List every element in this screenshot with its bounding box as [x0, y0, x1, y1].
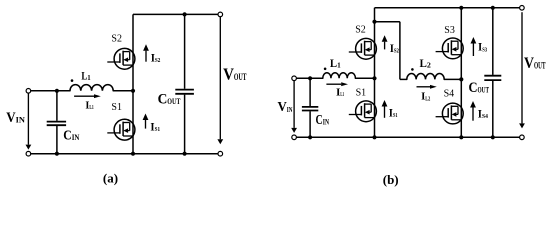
node CIN bottom junction (a): [55, 152, 59, 156]
svg-text:OUT: OUT: [167, 96, 180, 106]
svg-text:OUT: OUT: [534, 61, 546, 71]
wire L1 to switch leg (a): [113, 90, 133, 92]
node S1 source junction (a): [131, 152, 135, 156]
label IL1 (b): [336, 88, 344, 99]
node COUT bottom junction (a): [183, 152, 187, 156]
label COUT (a): [158, 92, 181, 108]
wire bottom rail (b): [296, 136, 519, 138]
inductor L2 (b): [407, 73, 444, 79]
polarity dot L2 (b): [411, 68, 414, 71]
svg-text:S1: S1: [393, 112, 398, 119]
svg-text:S3: S3: [444, 25, 455, 36]
svg-text:(a): (a): [103, 171, 118, 186]
current arrow IS1 (a): [143, 114, 149, 129]
voltage arrow VIN (b): [291, 81, 297, 133]
wire L1 to leg1 (b): [355, 77, 374, 79]
svg-text:OUT: OUT: [478, 85, 490, 95]
capacitor COUT (b): [484, 8, 501, 138]
svg-text:(b): (b): [383, 172, 399, 187]
label S1 (b): [356, 87, 367, 98]
input terminal top (b): [292, 76, 297, 81]
voltage arrow VOUT (b): [519, 12, 525, 128]
current arrow IL2 (b): [417, 85, 437, 89]
svg-text:IN: IN: [16, 115, 25, 124]
label VOUT (a): [223, 65, 246, 84]
label IS1 (b): [389, 105, 398, 119]
transistor S1 (a): [107, 119, 135, 140]
node CIN top junction (a): [55, 89, 59, 93]
input terminal bottom (b): [292, 135, 297, 140]
svg-text:V: V: [223, 65, 234, 84]
label L1 (b): [330, 56, 341, 70]
svg-text:IN: IN: [72, 133, 80, 142]
label S2 (a): [111, 34, 122, 45]
wire input top rail left segment (b): [296, 77, 322, 79]
label IS4 (b): [478, 107, 489, 121]
output terminal top (b): [520, 6, 525, 11]
output terminal bottom (b): [520, 135, 525, 140]
svg-text:C: C: [316, 112, 323, 127]
label VIN (a): [6, 110, 25, 126]
input terminal bottom (a): [26, 151, 31, 156]
wire L2 left stub (b): [400, 78, 407, 80]
label CIN (b): [316, 112, 330, 127]
label S4 (b): [444, 88, 455, 99]
svg-text:OUT: OUT: [234, 72, 247, 82]
svg-text:1: 1: [337, 62, 341, 70]
capacitor COUT (a): [175, 14, 194, 153]
node leg2 top junction (b): [459, 6, 463, 10]
wire bottom rail (a): [31, 153, 218, 155]
svg-text:L1: L1: [340, 91, 344, 98]
output terminal top (a): [218, 12, 223, 17]
label IS1 (a): [150, 119, 160, 133]
svg-text:C: C: [158, 92, 168, 108]
label COUT (b): [469, 80, 490, 96]
wire middle link vertical (b): [399, 22, 401, 80]
wire leg2 vertical (b): [460, 8, 462, 138]
wire top rail (b): [375, 7, 520, 9]
node COUT top junction (a): [183, 12, 187, 16]
circuit (a) two-switch boost cell: [6, 12, 246, 186]
svg-text:V: V: [524, 55, 534, 72]
polarity dot L1 (a): [71, 79, 74, 82]
label CIN (a): [63, 127, 79, 142]
inductor L1 (a): [70, 85, 113, 91]
svg-text:S2: S2: [394, 48, 399, 55]
label S1 (a): [111, 102, 122, 113]
label IS2 (a): [151, 51, 161, 65]
node CIN top junction (b): [308, 76, 312, 80]
circuit (b) stacked two-phase boost: [278, 6, 546, 187]
current arrow IS3 (b): [471, 37, 477, 56]
current arrow IL1 (a): [74, 94, 101, 98]
label IS2 (b): [390, 41, 399, 55]
caption (a): [103, 171, 118, 186]
node leg1 bottom junction (b): [372, 135, 376, 139]
svg-text:C: C: [469, 80, 478, 96]
capacitor CIN (a): [47, 91, 66, 154]
wire middle link horizontal (b): [375, 21, 400, 23]
current arrow IS1 (b): [382, 100, 388, 118]
svg-text:S2: S2: [355, 24, 366, 35]
transistor S3 (b): [436, 38, 464, 59]
current arrow IL1 (b): [326, 82, 348, 86]
label S2 (b): [355, 24, 366, 35]
label IS3 (b): [478, 40, 487, 54]
svg-text:L1: L1: [89, 104, 93, 111]
transistor S1 (b): [349, 101, 377, 122]
svg-text:2: 2: [427, 62, 432, 70]
label IL2 (b): [421, 92, 430, 103]
caption (b): [383, 172, 399, 187]
svg-text:IN: IN: [287, 105, 293, 114]
svg-text:C: C: [63, 127, 71, 142]
svg-text:S1: S1: [155, 126, 160, 133]
svg-text:V: V: [278, 100, 287, 115]
wire leg1 vertical (b): [374, 8, 376, 138]
wire L2 to leg2 (b): [444, 78, 461, 80]
node leg1 mid junction (b): [372, 76, 376, 80]
node leg1 top tap junction (b): [372, 20, 376, 24]
svg-text:IN: IN: [323, 117, 329, 126]
svg-text:S1: S1: [111, 102, 122, 113]
wire switch leg vertical (a): [132, 14, 134, 153]
node leg2 mid junction (b): [459, 77, 463, 81]
wire output top rail (a): [133, 13, 218, 15]
svg-text:L2: L2: [425, 95, 430, 102]
node COUT bottom junction (b): [491, 135, 495, 139]
voltage arrow VIN (a): [26, 93, 32, 149]
label IL1 (a): [85, 100, 93, 111]
svg-text:S2: S2: [155, 57, 160, 64]
wire input top rail left segment (a): [31, 90, 70, 92]
node leg2 bottom junction (b): [459, 135, 463, 139]
transistor S2 (a): [107, 48, 135, 69]
svg-text:S3: S3: [482, 46, 487, 53]
label L2 (b): [420, 56, 432, 70]
svg-text:S2: S2: [111, 34, 122, 45]
output terminal bottom (a): [218, 151, 223, 156]
label VIN (b): [278, 100, 293, 115]
transistor S2 (b): [349, 38, 377, 59]
label VOUT (b): [524, 55, 546, 72]
current arrow IS2 (a): [143, 44, 149, 62]
svg-text:L: L: [420, 56, 428, 70]
node CIN bottom junction (b): [308, 135, 312, 139]
svg-text:S4: S4: [444, 88, 455, 99]
current arrow IS2 (b): [382, 35, 388, 49]
node COUT top junction (b): [491, 6, 495, 10]
svg-text:S4: S4: [482, 113, 489, 120]
label S3 (b): [444, 25, 455, 36]
input terminal top (a): [26, 89, 31, 94]
label L1 (a): [81, 69, 91, 83]
capacitor CIN (b): [302, 78, 318, 137]
svg-text:S1: S1: [356, 87, 367, 98]
polarity dot L1 (b): [324, 68, 327, 71]
current arrow IS4 (b): [470, 101, 476, 121]
transistor S4 (b): [436, 103, 464, 124]
inductor L1 (b): [323, 73, 356, 79]
node A junction dot (a): [131, 89, 135, 93]
svg-text:V: V: [6, 110, 16, 126]
svg-text:1: 1: [87, 74, 91, 82]
voltage arrow VOUT (a): [217, 17, 223, 144]
